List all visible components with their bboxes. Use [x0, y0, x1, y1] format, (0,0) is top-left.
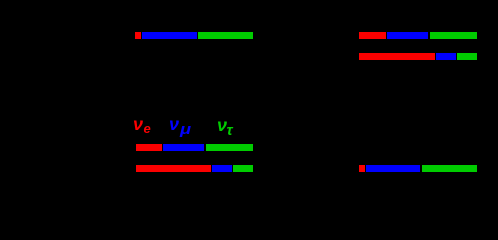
mass eigenstate nu2 bar (inverted hierarchy, top right) : red segment [359, 32, 386, 39]
mass eigenstate nu3 bar (normal hierarchy, top left) : red segment [135, 32, 141, 39]
mass eigenstate nu1 bar (normal hierarchy, bottom left) : green segment [233, 165, 253, 172]
mass eigenstate nu3 bar (inverted hierarchy, bottom right) : red segment [359, 165, 365, 172]
mass eigenstate nu1 bar (normal hierarchy, bottom left) : red segment [136, 165, 211, 172]
flavor label nu_mu [169, 115, 179, 133]
mass eigenstate nu1 bar (inverted hierarchy, second right) : green segment [457, 53, 477, 60]
mass eigenstate nu2 bar (normal hierarchy, left) : red segment [136, 144, 162, 151]
flavor label nu_e [133, 115, 143, 133]
flavor label nu_tau [217, 116, 227, 134]
mass eigenstate nu2 bar (normal hierarchy, left) : blue segment [163, 144, 204, 151]
mass eigenstate nu2 bar (normal hierarchy, left) : green segment [206, 144, 254, 151]
mass eigenstate nu3 bar (normal hierarchy, top left) : green segment [198, 32, 253, 39]
mass eigenstate nu1 bar (inverted hierarchy, second right) : blue segment [436, 53, 456, 60]
mass eigenstate nu3 bar (inverted hierarchy, bottom right) : green segment [422, 165, 477, 172]
mass eigenstate nu1 bar (inverted hierarchy, second right) : red segment [359, 53, 435, 60]
mass eigenstate nu2 bar (inverted hierarchy, top right) : green segment [430, 32, 478, 39]
mass eigenstate nu3 bar (normal hierarchy, top left) : blue segment [142, 32, 197, 39]
mass eigenstate nu3 bar (inverted hierarchy, bottom right) : blue segment [366, 165, 420, 172]
mass eigenstate nu1 bar (normal hierarchy, bottom left) : blue segment [212, 165, 231, 172]
mass eigenstate nu2 bar (inverted hierarchy, top right) : blue segment [387, 32, 427, 39]
